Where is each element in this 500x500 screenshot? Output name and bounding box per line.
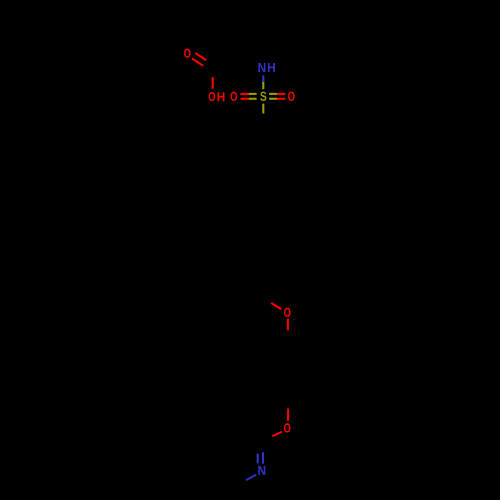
N-S bond blue half — [262, 75, 264, 82]
S=O right double bond olive halves — [269, 94, 277, 99]
middle ether O label — [284, 308, 291, 317]
carbonyl O label — [184, 49, 191, 58]
S-C aryl bond olive half — [262, 104, 264, 114]
pyridine N label — [258, 466, 265, 475]
NH amine label — [258, 63, 275, 72]
S=O left double bond red halves — [241, 94, 249, 99]
pyridine C2=N double bond main line blue half — [262, 452, 264, 464]
pyridine C2=N double bond inner line blue half — [257, 454, 259, 464]
O-pyridyl bond red half — [272, 432, 282, 436]
C-OH bond (red half) — [212, 77, 214, 89]
left sulfonyl O label — [230, 92, 237, 101]
O-aryl bond red half below mid O — [287, 319, 289, 331]
aryl-O bond red half above bottom O — [287, 409, 289, 421]
S=O left double bond olive halves — [249, 94, 257, 99]
S sulfur label — [260, 92, 266, 101]
OH hydroxyl label — [209, 92, 225, 101]
pyridine N-C6 bond blue half — [246, 475, 256, 481]
right sulfonyl O label — [288, 92, 295, 101]
S=O right double bond red halves — [277, 94, 285, 99]
carboxyl C=O double bond (red halves) — [192, 53, 206, 66]
bottom ether O label — [284, 423, 291, 432]
N-S bond olive half — [262, 82, 264, 89]
CH2-O ether bond red half — [271, 303, 281, 309]
